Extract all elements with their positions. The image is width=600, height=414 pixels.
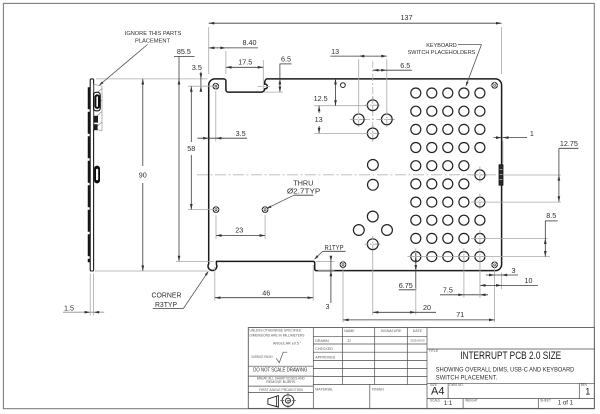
mid-left hole 2 thru 2.7 [262,207,268,213]
svg-text:17.5: 17.5 [238,57,252,66]
switch hole row6 col4 [459,179,469,189]
switch hole row6 col3 [443,179,453,189]
dimension 3.5 hole from top [200,72,202,92]
mid-left hole 1 [213,207,219,213]
title block right section lines [427,348,594,350]
svg-text:3: 3 [326,302,330,311]
switch hole row8 col5 [475,215,485,225]
svg-text:3.5: 3.5 [236,129,246,138]
svg-text:SWITCH PLACEMENT.: SWITCH PLACEMENT. [436,375,498,382]
dimension 8.40 usb offset [225,51,227,74]
dimension 7.5 [463,259,465,298]
svg-text:2025-08-20: 2025-08-20 [410,339,425,343]
svg-text:SHEET: SHEET [540,399,551,403]
svg-text:Ø2.7TYP: Ø2.7TYP [287,187,321,196]
projection symbol cone [268,396,279,408]
extension line top edge side-to-front [96,78,208,80]
side view smd part 1 [94,116,98,123]
edge connector on right edge [499,165,503,186]
dimension 85.5 left height [174,55,195,57]
switch hole row8 col1 [411,215,421,225]
title block left section lines [248,365,313,367]
title block middle table lines [313,335,427,337]
svg-text:SWITCH PLACEHOLDERS: SWITCH PLACEHOLDERS [408,50,476,56]
switch hole row7 col3 [443,197,453,207]
svg-text:FINISH: FINISH [372,387,384,391]
side view hatched ignore region [94,84,102,131]
corner hole top-right [492,83,498,89]
dimension 3.5 hole from left edge [215,91,217,142]
switch hole row8 col2 [427,215,437,225]
svg-text:1.5: 1.5 [64,303,74,312]
switch hole row5 col4 [459,161,469,171]
svg-text:REMOVE BURRS: REMOVE BURRS [266,380,296,384]
diamond cluster vertical centerline [372,61,374,99]
lower diamond hole left [353,225,364,236]
small hole near notch [341,83,346,88]
switch mount hole row7 col5 [475,197,485,207]
r1typ leader [315,251,323,258]
svg-text:SCALE: SCALE [430,399,440,403]
corner hole bottom-right [492,262,498,268]
svg-text:IGNORE THIS PARTS: IGNORE THIS PARTS [125,31,182,37]
side view parts bar (components) [88,87,91,262]
svg-text:SIGNATURE: SIGNATURE [381,329,402,333]
lower diamond hole top [367,211,378,222]
svg-text:1:1: 1:1 [444,400,453,407]
ignore label leader [100,45,148,85]
switch hole row2 col3 [443,106,453,116]
svg-text:22: 22 [348,339,352,343]
lower diamond mount hole bottom [367,239,378,250]
dimension 6.75 [415,253,417,290]
diamond cluster horizontal centerline [350,118,395,120]
dimension 17.5 notch width [262,60,264,90]
svg-text:PLACEMENT: PLACEMENT [135,39,171,45]
switch hole row3 col1 [411,124,421,134]
switch hole row10 col2 [427,252,437,262]
small hole near step [340,262,346,268]
extension line bottom edge side-to-front [95,270,208,272]
corner label leader [183,272,208,309]
keyboard label leader [458,44,482,46]
projection symbol circle [282,395,294,407]
switch hole row3 col2 [427,124,437,134]
switch hole row3 col5 [475,124,485,134]
dimension 58 hole spacing vertical [188,85,212,87]
svg-text:137: 137 [401,13,413,22]
switch hole row7 col2 [427,197,437,207]
svg-text:71: 71 [456,310,464,319]
switch hole row2 col1 [411,106,421,116]
switch hole row5 col3 [443,161,453,171]
switch hole row4 col3 [443,143,453,153]
svg-text:R1TYP: R1TYP [325,243,344,252]
front view board outline [208,79,502,271]
horizontal centerline [197,174,503,176]
svg-text:58: 58 [187,144,195,153]
svg-text:INTERRUPT PCB 2.0 SIZE: INTERRUPT PCB 2.0 SIZE [460,350,561,362]
middle hole upper [368,160,379,171]
switch hole row9 col2 [427,233,437,243]
dimension 8.5 [471,237,548,239]
svg-text:CHECKED: CHECKED [315,347,333,351]
title block outer frame [248,328,594,409]
middle hole lower [368,179,379,190]
svg-text:3: 3 [512,266,516,275]
dimension 20 [372,250,374,315]
svg-text:12.75: 12.75 [560,139,578,148]
svg-text:6.75: 6.75 [399,281,413,290]
dimension 13 horizontal diamond [358,59,360,114]
svg-text:23: 23 [235,226,243,235]
switch mount hole row10 col5 [475,252,485,262]
svg-text:20: 20 [423,303,431,312]
dimension 6.5 diamond offset [373,69,412,71]
svg-text:ANGULAR ±0.5 °: ANGULAR ±0.5 ° [273,342,302,346]
svg-text:13: 13 [315,115,323,124]
upper diamond hole right [381,114,392,125]
switch hole row2 col5 [475,106,485,116]
svg-text:12.5: 12.5 [314,94,328,103]
svg-text:DIMENSIONS ARE IN MILLIMETERS: DIMENSIONS ARE IN MILLIMETERS [250,333,305,337]
switch mount hole row9 col5 [475,233,485,243]
svg-text:1: 1 [530,129,534,138]
grid col5 extension down [479,263,481,298]
dimension 3 hole to edge [486,274,518,276]
dimension 12.75 [504,174,561,176]
svg-text:R3TYP: R3TYP [155,300,177,309]
dimension 90 side view height [142,79,144,166]
dimension 6.5 notch depth [264,91,283,93]
dimension 137 overall width [208,27,210,74]
switch mount hole on centerline col5 [475,170,485,180]
side view usb-c connector shell [94,92,101,111]
switch hole row9 col1 [411,233,421,243]
svg-text:KEYBOARD: KEYBOARD [426,43,457,49]
notch bump centerline [258,85,271,87]
switch hole row9 col3 [443,233,453,243]
switch hole row1 col3 [443,88,453,98]
svg-text:SURFACE FINISH: SURFACE FINISH [251,355,272,359]
switch hole row2 col4 [459,106,469,116]
svg-text:CORNER: CORNER [152,290,182,299]
switch hole row4 col1 [411,143,421,153]
dimension 10 [501,273,503,290]
switch hole row2 col2 [427,106,437,116]
upper diamond hole left [353,114,364,125]
switch hole row7 col1 [411,197,421,207]
svg-text:UNLESS OTHERWISE SPECIFIED:: UNLESS OTHERWISE SPECIFIED: [250,329,303,333]
switch hole row4 col4 [459,143,469,153]
svg-text:WEIGHT: WEIGHT [465,399,478,403]
switch hole row1 col2 [427,88,437,98]
switch hole row1 col5 [475,88,485,98]
svg-text:3.5: 3.5 [192,63,202,72]
corner hole top-left [213,83,219,89]
dimension 23 [215,215,217,239]
lower diamond hole right [382,225,393,236]
switch hole row8 col3 [443,215,453,225]
switch hole row5 col1 [411,161,421,171]
switch hole row9 col4 [459,233,469,243]
svg-text:1: 1 [585,386,590,396]
svg-text:TITLE: TITLE [429,349,439,353]
dimension 1.5 pcb thickness [89,274,91,316]
switch hole row6 col1 [411,179,421,189]
dimension 3 step height [316,260,335,262]
svg-text:10: 10 [525,276,533,285]
svg-text:6.5: 6.5 [281,55,291,64]
switch hole row8 col4 [459,215,469,225]
svg-text:6.5: 6.5 [400,61,410,70]
side view usb-c port pill [94,166,100,184]
switch hole row4 col2 [427,143,437,153]
dimension 12.5 [314,105,367,107]
svg-text:85.5: 85.5 [177,47,191,56]
dimension 13 vertical diamond [314,132,367,134]
switch hole row1 col1 [411,88,421,98]
svg-text:APPROVED: APPROVED [315,355,335,359]
switch hole row5 col2 [427,161,437,171]
svg-text:DWG NO.: DWG NO. [449,383,463,387]
svg-text:FIRST ANGLE PROJECTION: FIRST ANGLE PROJECTION [259,388,303,392]
svg-text:8.40: 8.40 [243,38,257,47]
svg-text:46: 46 [262,288,270,297]
svg-text:13: 13 [331,47,339,56]
svg-text:DRAWN: DRAWN [315,339,329,343]
switch hole row7 col4 [459,197,469,207]
side view smd part 2 [94,124,98,130]
svg-text:DATE: DATE [413,329,423,333]
svg-text:90: 90 [139,170,147,179]
upper diamond hole top [367,100,378,111]
switch mount hole row10 col1 [411,252,421,262]
svg-text:1 of 1: 1 of 1 [558,400,574,407]
svg-text:NAME: NAME [344,329,355,333]
dimension 46 [214,267,216,301]
svg-text:MATERIAL: MATERIAL [315,387,333,391]
switch hole row6 col2 [427,179,437,189]
svg-text:A4: A4 [431,385,444,397]
switch hole row4 col5 [475,143,485,153]
svg-text:SHOWING OVERALL DIMS, USB-C AN: SHOWING OVERALL DIMS, USB-C AND KEYBOARD [436,366,575,373]
svg-text:8.5: 8.5 [546,211,556,220]
thru label leader [268,195,294,208]
switch mount hole row10 col4 [459,252,469,262]
surface finish symbol [276,352,287,362]
dimension 71 [342,268,344,323]
switch hole row3 col4 [459,124,469,134]
svg-text:7.5: 7.5 [443,285,453,294]
side view pcb profile [90,79,93,271]
switch hole row10 col3 [443,252,453,262]
switch hole row3 col3 [443,124,453,134]
dimension 1 edge connector [502,141,504,164]
upper diamond hole bottom [367,128,378,139]
svg-text:DO NOT SCALE DRAWING: DO NOT SCALE DRAWING [253,368,307,374]
switch hole row1 col4 [459,88,469,98]
